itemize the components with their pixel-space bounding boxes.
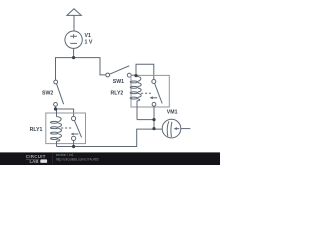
RLY1 coil turn 2	[50, 127, 58, 129]
wire RLY2 coil to node D	[137, 119, 154, 121]
VM1 body	[162, 119, 181, 138]
RLY2 coil bottom pin	[136, 101, 138, 120]
wire node A to SW1	[74, 58, 106, 75]
svg-text:SW1: SW1	[113, 79, 124, 85]
RLY2 coil turn 4	[130, 97, 138, 99]
RLY2 coil turn 2	[130, 86, 138, 88]
RLY2 coil link arc 2	[138, 88, 141, 92]
RLY2 coil top pin	[135, 75, 137, 76]
SW1 terminal 1	[106, 73, 110, 77]
node A junction below V1	[72, 56, 75, 59]
svg-text:LAB: LAB	[30, 159, 39, 164]
relay RLY2	[130, 75, 169, 128]
node B junction SW2 / RLY1	[54, 107, 57, 110]
RLY1 actuator arrow head	[71, 133, 74, 136]
RLY2 contact terminal bottom	[152, 102, 156, 106]
svg-text:VM1: VM1	[167, 110, 178, 116]
V1 minus sign	[70, 42, 77, 44]
switch SW1	[106, 66, 131, 77]
svg-text:RLY2: RLY2	[111, 91, 124, 97]
RLY1 contact terminal top	[72, 116, 76, 120]
node E junction VM1 / RLY2 contact	[152, 127, 155, 130]
RLY2 coupling dashed link	[141, 92, 151, 94]
wire triangle to V1	[73, 15, 75, 31]
relay RLY1	[46, 109, 86, 147]
VM1 needle arrow head	[174, 127, 177, 130]
RLY1 coil link arc 2	[58, 128, 61, 132]
RLY1 contact terminal bottom	[72, 136, 76, 140]
svg-text:RLY1: RLY1	[30, 127, 43, 133]
voltage source V1 body	[65, 31, 82, 48]
svg-text:http://circuitlab.com/c/74c4b5: http://circuitlab.com/c/74c4b5	[56, 157, 99, 161]
wire SW1 to node C	[131, 74, 136, 76]
svg-text:1 V: 1 V	[85, 39, 93, 45]
VM1 meter mark 1	[167, 121, 169, 136]
RLY1 coil turn 1	[50, 121, 58, 123]
RLY1 contact lever	[74, 120, 81, 137]
RLY2 coil turn 3	[130, 92, 138, 94]
RLY2 actuator arrow shaft	[153, 97, 158, 99]
voltmeter VM1	[162, 119, 181, 138]
RLY2 box	[131, 75, 169, 107]
RLY1 coupling dashed link	[61, 127, 73, 129]
RLY1 coil turn 3	[50, 132, 58, 134]
SW2 lever	[57, 84, 64, 105]
wire node C to RLY2 switch	[136, 64, 154, 79]
VM1 meter mark 2	[170, 122, 173, 137]
RLY1 coil top pin	[56, 109, 58, 117]
RLY1 coil link arc 3	[58, 134, 61, 138]
bottom return wire	[57, 129, 163, 146]
RLY2 contact bottom pin	[153, 106, 155, 128]
SW2 terminal 2	[54, 103, 58, 107]
RLY1 actuator arrow shaft	[72, 133, 78, 135]
RLY2 coil link arc 1	[138, 83, 141, 87]
RLY1 coil turn 4	[50, 138, 58, 140]
RLY2 coil entry arc	[136, 76, 141, 81]
SW1 lever	[110, 66, 130, 74]
SW1 terminal 2	[127, 73, 131, 77]
switch SW2	[54, 80, 64, 106]
svg-text:V1: V1	[85, 33, 91, 39]
node D junction RLY2 coil return	[152, 118, 155, 121]
RLY1 coil link arc 1	[58, 123, 61, 127]
SW2 terminal 1	[54, 80, 58, 84]
watermark bar	[0, 152, 220, 165]
RLY1 coil bottom pin	[56, 141, 58, 146]
V1 plus sign	[70, 34, 77, 38]
power flag (supply triangle)	[67, 9, 81, 16]
RLY2 actuator arrow head	[150, 96, 153, 99]
RLY2 contact terminal top	[152, 80, 156, 84]
node C junction SW1 / RLY2 coil	[134, 74, 137, 77]
node RLY1 bottom junction	[72, 145, 75, 148]
RLY1 box	[46, 113, 86, 144]
wire SW2 to node B	[55, 106, 57, 109]
wire node B to RLY1 switch	[56, 109, 74, 117]
VM1 needle shaft	[176, 128, 179, 130]
RLY2 coil link arc 3	[138, 93, 141, 97]
wire VM1 right stub	[181, 128, 191, 130]
svg-text:SW2: SW2	[42, 91, 53, 97]
wire V1 to node A	[73, 48, 75, 57]
RLY1 coil exit arc	[57, 139, 60, 141]
RLY1 coil entry arc	[57, 117, 62, 122]
RLY1 contact bottom pin	[73, 141, 75, 147]
RLY2 coil exit arc	[137, 99, 140, 101]
wire node A to SW2	[56, 58, 74, 81]
RLY2 contact lever	[155, 83, 163, 103]
RLY2 coil turn 1	[130, 81, 138, 83]
